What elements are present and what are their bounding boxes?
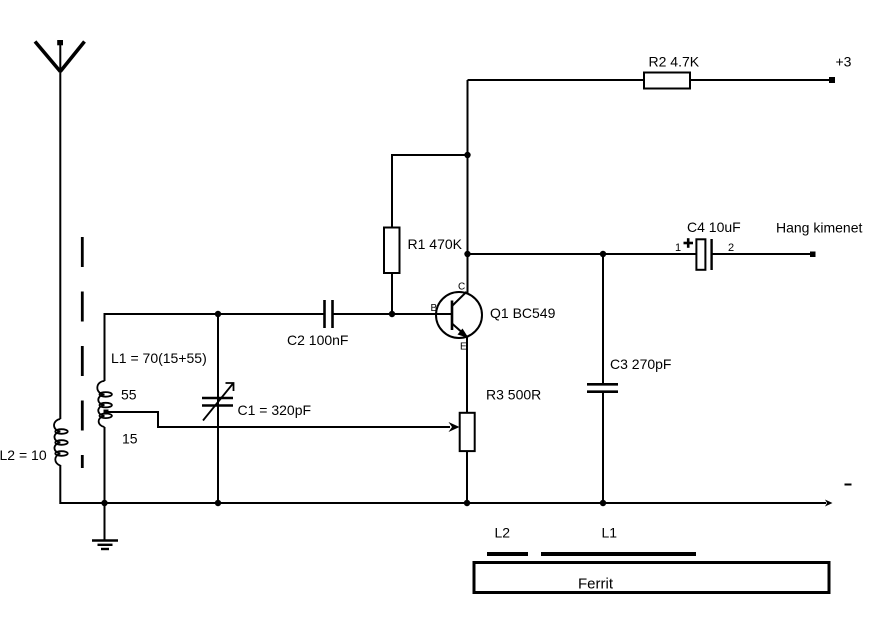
inductor L1 <box>97 381 112 427</box>
wire C2 to base <box>333 313 451 315</box>
svg-text:E: E <box>460 342 467 353</box>
wire antenna lead down to L2 <box>59 71 61 419</box>
wire output <box>468 253 697 255</box>
svg-text:L1 = 70(15+55): L1 = 70(15+55) <box>111 350 207 366</box>
svg-text:Hang kimenet: Hang kimenet <box>776 220 862 236</box>
ferrite core dashed line <box>81 237 84 468</box>
capacitor C3 <box>587 254 618 504</box>
svg-text:C2 100nF: C2 100nF <box>287 332 348 348</box>
inductor L2 <box>54 419 68 466</box>
L1 winding bar <box>541 552 696 556</box>
wire L1 tap to R3 wiper <box>106 412 450 427</box>
svg-text:R3 500R: R3 500R <box>486 387 541 403</box>
resistor R1 <box>384 228 400 274</box>
arrowhead at R3 wiper <box>449 422 460 432</box>
svg-text:C1 = 320pF: C1 = 320pF <box>238 402 312 418</box>
arrowhead bottom rail <box>825 500 833 507</box>
tap terminal on L1 <box>104 410 109 415</box>
transistor Q1 <box>436 292 482 338</box>
svg-text:R1 470K: R1 470K <box>408 236 463 252</box>
ferrite rod box <box>474 563 829 593</box>
antenna <box>35 40 85 72</box>
resistor R3 (preset) <box>460 413 475 451</box>
svg-text:15: 15 <box>122 431 138 447</box>
node L1 ground junction <box>101 500 107 506</box>
svg-text:L2 = 10: L2 = 10 <box>0 447 47 463</box>
wire R1 bottom <box>391 273 393 314</box>
wire R3 bottom <box>466 451 468 504</box>
wire emitter to R3 <box>466 337 468 413</box>
terminal output <box>810 252 816 258</box>
node R3 ground junction <box>464 500 470 506</box>
svg-text:C: C <box>458 282 465 293</box>
node R1 lower junction <box>389 311 395 317</box>
top rail wire right <box>690 79 831 81</box>
svg-text:C4 10uF: C4 10uF <box>687 219 741 235</box>
wire L1 bottom to rail <box>104 427 106 504</box>
wire L2 to bottom rail <box>59 465 61 504</box>
wire collector riser <box>467 80 469 293</box>
capacitor C4 (electrolytic) <box>684 238 712 270</box>
L2 winding bar <box>487 552 528 556</box>
svg-text:L1: L1 <box>602 525 618 541</box>
node collector output junction <box>464 251 470 257</box>
node C1 ground junction <box>215 500 221 506</box>
svg-text:Ferrit: Ferrit <box>578 576 614 593</box>
wire L1 top to base net <box>105 314 219 381</box>
node C3 ground junction <box>600 500 606 506</box>
wire C1 branch <box>217 314 219 504</box>
svg-text:1: 1 <box>675 242 681 254</box>
svg-text:R2 4.7K: R2 4.7K <box>649 54 700 70</box>
terminal +3 <box>829 77 835 83</box>
node C3 top junction <box>600 251 606 257</box>
svg-text:55: 55 <box>121 387 137 403</box>
svg-text:B: B <box>431 303 438 314</box>
resistor R2 <box>644 73 690 89</box>
svg-text:C3 270pF: C3 270pF <box>610 356 671 372</box>
svg-text:Q1 BC549: Q1 BC549 <box>490 305 556 321</box>
bottom rail wire <box>60 502 826 504</box>
node R1 top junction <box>464 152 470 158</box>
label minus <box>845 484 852 486</box>
top rail wire left <box>468 79 645 81</box>
ground <box>92 503 118 549</box>
wire R1 top branch <box>392 155 468 228</box>
svg-text:L2: L2 <box>495 525 511 541</box>
wire C4 to output terminal <box>712 253 811 255</box>
capacitor C1 (variable) <box>202 383 234 421</box>
svg-text:2: 2 <box>728 242 734 254</box>
wire base net to C2 <box>218 313 324 315</box>
svg-text:+3: +3 <box>836 54 852 70</box>
node L1/C2 junction <box>215 311 221 317</box>
capacitor C2 <box>325 300 333 328</box>
